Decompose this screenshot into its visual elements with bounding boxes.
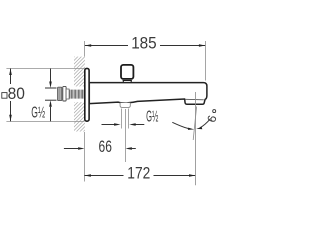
supply pipe stub [45,88,57,100]
diverter knob [121,65,133,79]
hatch clearance for pipe [68,86,84,102]
G1/2 bottom right arrow [129,123,136,126]
arc left arrowhead [188,128,194,130]
6 degree tilted line [193,107,196,141]
dim G1/2 left: vertical with outside arrows [50,69,52,122]
svg-text:185: 185 [131,34,157,53]
outlet centerline / 172 right extension [195,92,197,185]
socket extension lines [122,109,129,129]
dim 172 [84,175,195,177]
dimension square-80 bottom arrow [9,115,12,122]
dim 185 line [85,45,206,47]
svg-text:172: 172 [127,163,150,182]
G1/2 left down arrow [49,82,52,89]
dim 185 left extension [84,41,86,57]
spout body outline [89,83,207,105]
dim 80 top extension line [6,68,84,70]
dim 172 left arrow [84,174,91,177]
wall face extension (66/172) [84,132,86,182]
dimension square-80 vertical line [10,69,12,122]
dim 66 left arrow [78,147,85,150]
wall hatch [60,24,100,162]
6 degree arc right [200,119,211,128]
label square80 square glyph [2,93,7,99]
spout aerator joint line [186,98,204,101]
dim 185 right extension [205,41,207,81]
svg-text:G½: G½ [146,109,158,126]
svg-text:G½: G½ [31,105,45,122]
union nut (shaded cylinder) [58,87,62,100]
threads [70,90,84,99]
dim 80 bottom extension line [6,121,84,123]
socket centerline [125,109,127,162]
dim 66 [64,148,136,150]
6 degree arc left [172,122,190,129]
bottom outlet socket [120,103,130,108]
dim G1/2 bottom arrows [102,124,145,126]
dim 172 right arrow [189,174,196,177]
neck [66,89,69,99]
svg-text:66: 66 [99,137,112,156]
dim 66 right arrow [125,147,131,150]
degree ring of 6deg label [213,110,216,113]
union flange disc [63,86,66,101]
svg-text:6: 6 [204,113,217,124]
arc right arrowhead [196,127,202,129]
dim 185 left arrow [85,44,92,47]
dimension square-80 top arrow [9,69,12,76]
knob neck [123,80,132,83]
dim 185 right arrow [199,44,206,47]
G1/2 left up arrow [49,100,52,107]
flange wall plate [85,68,89,121]
G1/2 bottom left arrow [114,123,121,126]
svg-text:80: 80 [8,84,25,103]
